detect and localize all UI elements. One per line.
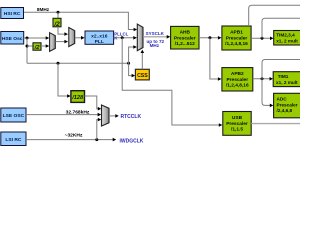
mux PLLXTPRE <box>50 33 56 52</box>
TIM1 multiplier block <box>273 72 301 87</box>
svg-text:Prescaler: Prescaler <box>226 77 248 83</box>
svg-text:x1, 2 mult: x1, 2 mult <box>276 80 298 85</box>
svg-text:x1, 2 mult: x1, 2 mult <box>276 38 298 43</box>
mux PLLSRC <box>69 28 75 47</box>
wire HSE to /2 divider <box>27 45 33 47</box>
svg-text:Prescaler: Prescaler <box>226 121 248 127</box>
svg-text:32.768kHz: 32.768kHz <box>66 109 90 115</box>
USB prescaler block <box>223 112 251 136</box>
AHB prescaler block <box>171 26 199 49</box>
wire PCLK2 down to ADC prescaler <box>262 79 273 107</box>
wire PLLXTPRE mux output to PLLSRC mux input 2 <box>55 40 68 44</box>
node HSE junction to /2 <box>26 45 29 48</box>
wire HSE bottom distribution <box>27 62 129 64</box>
svg-text:TIM1: TIM1 <box>278 74 289 79</box>
svg-text:/2,4,6,8: /2,4,6,8 <box>277 108 293 113</box>
svg-text:LSE OSC: LSE OSC <box>3 113 25 119</box>
node HSE/128 tap <box>57 62 60 65</box>
divider /128 <box>71 91 85 103</box>
node HSE junction top <box>26 37 29 40</box>
wire /2 divider to PLLXTPRE mux input 2 <box>41 44 49 48</box>
wire HSE tap down to /128 divider <box>58 63 71 98</box>
wire AHB output to APB1 prescaler <box>199 36 222 40</box>
svg-text:Prescaler: Prescaler <box>277 102 298 107</box>
wire PLLCLK to USB prescaler <box>122 38 222 127</box>
svg-text:TIM2,3,4: TIM2,3,4 <box>276 33 295 38</box>
wire USB output <box>251 123 300 125</box>
svg-text:SYSCLK: SYSCLK <box>146 31 165 36</box>
node HSE to CSS and SW mux junction <box>127 62 130 65</box>
svg-text:/1,2,4,8,16: /1,2,4,8,16 <box>225 41 248 47</box>
wire PLL output PLLCLK to SW mux input 2 <box>114 36 137 40</box>
divider /2 (HSI path) <box>53 18 61 28</box>
oscillator HSI RC <box>1 8 24 19</box>
TIM2,3,4 multiplier block <box>274 31 302 46</box>
svg-text:HSE Osc: HSE Osc <box>2 36 23 42</box>
wire PCLK1 up and out <box>262 18 300 38</box>
node HSI line junction <box>57 11 60 14</box>
svg-text:Prescaler: Prescaler <box>174 35 196 41</box>
svg-text:IWDGCLK: IWDGCLK <box>120 139 144 145</box>
wire PLLSRC mux output to PLL <box>75 36 85 40</box>
svg-text:USB: USB <box>232 115 243 121</box>
wire HSE down to CSS input <box>129 63 136 77</box>
svg-text:HSI RC: HSI RC <box>4 11 21 17</box>
mux SW (SYSCLK select) <box>137 24 143 51</box>
svg-text:AHB: AHB <box>180 30 191 36</box>
wire APB2 output to TIM1 <box>253 77 273 81</box>
APB1 prescaler block <box>222 26 251 50</box>
svg-text:/128: /128 <box>71 95 84 101</box>
ADC prescaler block <box>274 93 302 118</box>
wire LSI up to RTC mux input 3 <box>97 118 101 140</box>
svg-text:x2..x16: x2..x16 <box>91 33 108 39</box>
wire /2 divider to PLLSRC mux input 1 <box>58 27 68 36</box>
svg-text:MHz: MHz <box>150 43 160 48</box>
svg-text:8MHz: 8MHz <box>37 7 50 12</box>
wire CSS to SW mux control <box>141 50 145 70</box>
wire LSI to IWDG <box>26 138 116 142</box>
mux RTC source <box>102 105 110 126</box>
svg-text:CSS: CSS <box>137 73 148 79</box>
node LSI junction <box>95 138 98 141</box>
node PLLCLK junction <box>121 36 124 39</box>
svg-text:/2: /2 <box>53 21 60 28</box>
svg-text:~32KHz: ~32KHz <box>65 133 83 139</box>
oscillator HSE Osc <box>1 32 24 45</box>
wire HCLK down to APB2 prescaler <box>210 38 222 81</box>
wire SYSCLK to AHB prescaler <box>143 35 170 39</box>
APB2 prescaler block <box>222 68 253 91</box>
divider /2 (HSE path) <box>33 43 41 51</box>
wire /128 output to RTC mux input 1 <box>85 96 102 111</box>
PLL block x2..x16 <box>85 31 114 45</box>
svg-text:/2: /2 <box>34 45 41 51</box>
svg-text:/1,2,4,8,16: /1,2,4,8,16 <box>226 83 249 89</box>
node PCLK1 junction <box>261 37 264 40</box>
svg-text:PLL: PLL <box>95 39 104 45</box>
wire APB1 output to TIM2,3,4 <box>251 37 273 41</box>
wire HSI output to SW mux input 1 <box>24 12 138 31</box>
wire PCLK2 up and out <box>262 60 300 79</box>
wire HSE output to PLLXTPRE mux input 1 <box>24 36 50 40</box>
oscillator LSE OSC <box>1 108 26 122</box>
wire HSI to /2 divider <box>57 12 59 18</box>
svg-text:RTCCLK: RTCCLK <box>121 114 142 120</box>
wire APB1 top feed <box>249 5 300 26</box>
node HCLK junction <box>208 36 211 39</box>
wire LSE to RTC mux input 2 <box>26 113 101 117</box>
label PLLCLK <box>114 31 128 40</box>
node PCLK2 junction <box>261 77 264 80</box>
CSS block <box>135 69 149 80</box>
svg-text:/1,2...512: /1,2...512 <box>175 41 195 47</box>
oscillator LSI RC <box>1 132 26 146</box>
wire HSE up to SW mux input 3 <box>129 45 137 63</box>
svg-text:Prescaler: Prescaler <box>226 35 248 41</box>
svg-text:LSI RC: LSI RC <box>5 137 21 143</box>
wire HSE vertical branch <box>26 38 28 63</box>
wire RTCCLK output <box>109 114 119 118</box>
svg-text:APB2: APB2 <box>231 71 244 77</box>
svg-text:ADC: ADC <box>277 97 288 102</box>
svg-text:APB1: APB1 <box>230 30 243 36</box>
label SYSCLK up to 72 MHz <box>146 31 165 48</box>
svg-text:/1,1.5: /1,1.5 <box>231 127 243 133</box>
